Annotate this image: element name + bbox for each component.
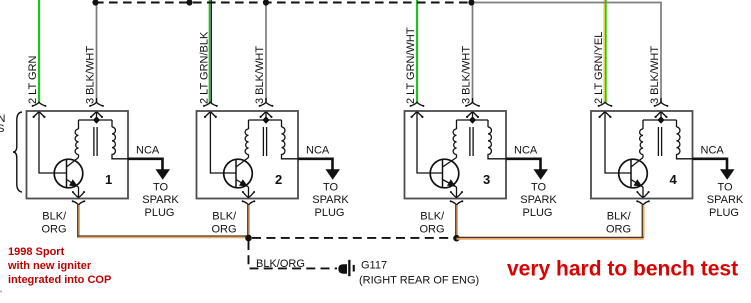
connector coil 2 pin 2 (coil side) bbox=[204, 112, 217, 118]
coil 4 secondary winding bbox=[677, 120, 693, 159]
ground terminal G117 symbol bbox=[338, 260, 355, 276]
connector coil 4 pin 2 (coil side) bbox=[599, 112, 612, 118]
svg-text:3: 3 bbox=[483, 172, 490, 187]
transistor Q2 (igniter) bbox=[224, 158, 253, 188]
svg-text:1: 1 bbox=[105, 172, 112, 187]
wire BLK/ORG drop from coil 2 bbox=[248, 205, 249, 238]
connector coil 2 pin 3 (coil side) bbox=[260, 112, 273, 118]
coil 2 core bbox=[263, 127, 266, 156]
svg-text:NCA: NCA bbox=[136, 145, 160, 157]
svg-text:ORG: ORG bbox=[42, 224, 67, 236]
connector coil 1 pin 2 (harness side) bbox=[32, 102, 47, 107]
connector coil 1 ground pin (coil side) bbox=[72, 187, 85, 197]
svg-text:S: S bbox=[0, 123, 4, 135]
transistor Q1 (igniter) bbox=[54, 158, 83, 188]
svg-text:BLK/ORG: BLK/ORG bbox=[256, 258, 305, 270]
svg-text:TO: TO bbox=[717, 182, 733, 194]
wire BLK/ORG drop from coil 4 bbox=[642, 205, 643, 238]
transistor Q3 (igniter) bbox=[430, 158, 459, 188]
svg-text:ORG: ORG bbox=[212, 224, 237, 236]
svg-text:PLUG: PLUG bbox=[315, 207, 345, 219]
junction diamond coil 1 primary/secondary/B+ bbox=[93, 116, 100, 124]
connector coil 1 ground pin (harness side) bbox=[72, 200, 86, 205]
wire LT GRN feed to coil 3 pin 2 bbox=[416, 0, 418, 103]
connector coil 3 ground pin (coil side) bbox=[450, 187, 463, 197]
svg-text:ORG: ORG bbox=[420, 224, 445, 236]
wire pin2 to transistor Q4 base bbox=[605, 112, 631, 173]
svg-text:SPARK: SPARK bbox=[707, 194, 744, 206]
wire BLK/WHT feed to coil 3 pin 3 bbox=[472, 3, 474, 103]
svg-text:BLK/: BLK/ bbox=[42, 211, 67, 223]
wire pin3 top horizontal bbox=[249, 112, 282, 120]
wire pin2 to transistor Q1 base bbox=[39, 112, 67, 173]
junction node ground bus at coil 2 bbox=[245, 235, 252, 242]
label BLK/ORG coil 3 bbox=[420, 211, 446, 236]
label BLK/ORG coil 1 bbox=[42, 211, 68, 236]
coil 1 secondary winding bbox=[112, 120, 128, 159]
svg-text:PLUG: PLUG bbox=[145, 207, 175, 219]
connector coil 4 ground pin (harness side) bbox=[636, 200, 650, 205]
connector coil 3 pin 2 (harness side) bbox=[410, 102, 425, 107]
wire coil 2 HT output to spark plug bbox=[298, 159, 340, 180]
junction node ground bus at coil 3 bbox=[453, 235, 460, 242]
label TO SPARK PLUG bbox=[520, 182, 557, 220]
top bus: BLK/WHT supply dashed wire bbox=[95, 2, 472, 4]
label TO SPARK PLUG bbox=[707, 182, 744, 220]
label BLK/ORG coil 4 bbox=[606, 211, 632, 236]
coil 4 core bbox=[658, 127, 661, 156]
stray mark bbox=[0, 291, 2, 293]
connector coil 4 ground pin (coil side) bbox=[636, 187, 649, 197]
junction node coil 2 B+ bbox=[263, 0, 269, 6]
wire BLK/ORG drop from coil 3 bbox=[456, 205, 457, 238]
svg-text:3 BLK/WHT: 3 BLK/WHT bbox=[649, 46, 661, 104]
annotation 1998 Sport with new igniter integrated into COP bbox=[7, 246, 111, 286]
connector coil 4 pin 3 (harness side) bbox=[654, 102, 669, 107]
ignition coil box 1 bbox=[27, 111, 129, 199]
wire BLK/ORG dashed branch to ground G117 bbox=[249, 241, 338, 268]
svg-text:3 BLK/WHT: 3 BLK/WHT bbox=[461, 46, 473, 104]
connector coil 2 ground pin (coil side) bbox=[242, 187, 255, 197]
wire pin2 to transistor Q2 base bbox=[210, 112, 236, 173]
svg-text:SPARK: SPARK bbox=[520, 194, 557, 206]
wire BLK/ORG drop from coil 1 bbox=[78, 205, 79, 238]
wire coil 4 HT output to spark plug bbox=[693, 159, 735, 180]
wire LT GRN feed to coil 4 pin 2 bbox=[604, 0, 606, 103]
wire pin2 to transistor Q3 base bbox=[417, 112, 443, 173]
wire BLK/ORG ground bus segment coil1-coil2 bbox=[79, 236, 250, 237]
svg-text:NCA: NCA bbox=[306, 145, 330, 157]
svg-text:PLUG: PLUG bbox=[709, 207, 739, 219]
svg-text:2 LT GRN/YEL: 2 LT GRN/YEL bbox=[593, 32, 605, 104]
label TO SPARK PLUG bbox=[142, 182, 179, 220]
junction diamond coil 3 primary/secondary/B+ bbox=[469, 116, 476, 124]
svg-text:G117: G117 bbox=[361, 259, 387, 271]
svg-text:3 BLK/WHT: 3 BLK/WHT bbox=[85, 46, 97, 104]
svg-text:2 LT GRN/BLK: 2 LT GRN/BLK bbox=[199, 31, 211, 104]
connector coil 3 ground pin (harness side) bbox=[450, 200, 464, 205]
wire pin3 top horizontal bbox=[643, 112, 677, 120]
svg-text:BLK/: BLK/ bbox=[420, 211, 445, 223]
wire BLK/WHT feed to coil 4 (top corner) bbox=[474, 3, 661, 4]
junction node (splice) bbox=[186, 0, 192, 6]
svg-text:very hard to bench test: very hard to bench test bbox=[507, 258, 738, 281]
junction node coil 1 B+ bbox=[92, 0, 98, 6]
junction diamond coil 2 primary/secondary/B+ bbox=[262, 116, 269, 124]
label TO SPARK PLUG bbox=[312, 182, 349, 220]
connector coil 1 pin 2 (coil side) bbox=[33, 112, 46, 118]
connector coil 1 pin 3 (harness side) bbox=[89, 102, 104, 107]
junction diamond coil 4 primary/secondary/B+ bbox=[657, 116, 664, 124]
svg-text:2: 2 bbox=[275, 172, 282, 187]
coil 2 primary winding bbox=[245, 120, 248, 155]
wire LT GRN feed to coil 1 pin 2 bbox=[38, 0, 40, 103]
svg-text:SPARK: SPARK bbox=[312, 194, 349, 206]
label BLK/ORG coil 2 bbox=[212, 211, 238, 236]
coil 4 primary winding bbox=[640, 120, 643, 155]
connector coil 2 pin 3 (harness side) bbox=[259, 102, 274, 107]
svg-text:NCA: NCA bbox=[701, 145, 725, 157]
wire Q3 collector to primary bbox=[456, 155, 458, 158]
coil 3 core bbox=[470, 127, 473, 156]
svg-text:TO: TO bbox=[323, 182, 339, 194]
svg-text:TO: TO bbox=[153, 182, 169, 194]
coil 3 secondary winding bbox=[488, 120, 506, 159]
wire coil 3 HT output to spark plug bbox=[506, 159, 548, 180]
svg-text:ORG: ORG bbox=[606, 224, 631, 236]
svg-text:TO: TO bbox=[531, 182, 547, 194]
svg-text:3 BLK/WHT: 3 BLK/WHT bbox=[254, 46, 266, 104]
svg-text:BLK/: BLK/ bbox=[212, 211, 237, 223]
brace grouping ignition coils bbox=[13, 112, 22, 192]
wire coil 1 HT output to spark plug bbox=[128, 159, 170, 180]
svg-text:1998 Sport: 1998 Sport bbox=[8, 246, 65, 258]
svg-text:2 LT GRN/WHT: 2 LT GRN/WHT bbox=[405, 27, 417, 104]
svg-text:BLK/: BLK/ bbox=[607, 211, 632, 223]
ignition coil box 2 bbox=[197, 111, 299, 199]
svg-text:SPARK: SPARK bbox=[142, 194, 179, 206]
coil 3 primary winding bbox=[453, 120, 456, 155]
coil 1 core bbox=[94, 127, 97, 156]
wire LT GRN feed to coil 2 pin 2 bbox=[210, 0, 212, 103]
connector coil 4 pin 3 (coil side) bbox=[655, 112, 668, 118]
coil 1 primary winding bbox=[75, 120, 78, 155]
connector coil 2 ground pin (harness side) bbox=[242, 200, 256, 205]
connector coil 2 pin 2 (harness side) bbox=[203, 102, 218, 107]
wire pin3 top horizontal bbox=[79, 112, 113, 120]
svg-text:4: 4 bbox=[670, 172, 678, 187]
wire Q4 collector to primary bbox=[642, 155, 644, 158]
wire BLK/WHT feed to coil 4 pin 3 bbox=[660, 3, 662, 103]
wire Q2 collector to primary bbox=[248, 155, 250, 158]
ignition coil box 4 bbox=[591, 111, 693, 199]
connector coil 4 pin 2 (harness side) bbox=[598, 102, 613, 107]
junction node coil 3 B+ bbox=[468, 0, 474, 6]
connector coil 1 pin 3 (coil side) bbox=[90, 112, 103, 118]
wire Q1 collector to primary bbox=[78, 155, 80, 158]
svg-text:integrated into COP: integrated into COP bbox=[8, 274, 111, 286]
connector coil 3 pin 3 (coil side) bbox=[466, 112, 479, 118]
coil 2 secondary winding bbox=[282, 120, 299, 159]
svg-text:NCA: NCA bbox=[514, 145, 538, 157]
svg-text:with new igniter: with new igniter bbox=[7, 260, 92, 272]
wire pin3 top horizontal bbox=[457, 112, 489, 120]
connector coil 3 pin 3 (harness side) bbox=[465, 102, 480, 107]
svg-text:PLUG: PLUG bbox=[523, 207, 553, 219]
svg-text:2 LT GRN: 2 LT GRN bbox=[27, 55, 39, 104]
ignition coil box 3 bbox=[405, 111, 507, 199]
wire BLK/ORG ground bus dashed segment coil2-coil3 bbox=[252, 237, 455, 239]
transistor Q4 (igniter) bbox=[619, 158, 648, 188]
connector coil 3 pin 2 (coil side) bbox=[411, 112, 424, 118]
wire BLK/WHT feed to coil 1 pin 3 bbox=[96, 3, 98, 103]
svg-text:(RIGHT REAR OF ENG): (RIGHT REAR OF ENG) bbox=[359, 274, 479, 286]
wire BLK/ORG ground bus segment coil3-coil4 bbox=[457, 238, 644, 239]
wire BLK/WHT feed to coil 2 pin 3 bbox=[265, 3, 267, 103]
